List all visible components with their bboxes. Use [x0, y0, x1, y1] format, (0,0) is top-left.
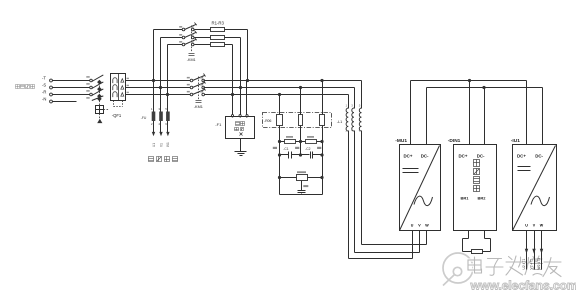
svg-text:V2 4T2: V2 4T2: [530, 259, 534, 270]
svg-text:DC-: DC-: [477, 154, 485, 159]
svg-text:www.elecfans.com: www.elecfans.com: [470, 279, 576, 293]
svg-text:-C1: -C1: [283, 147, 288, 151]
svg-text:-QF1: -QF1: [112, 113, 122, 118]
svg-text:DC+: DC+: [459, 154, 468, 159]
svg-text:-MU1: -MU1: [395, 138, 407, 144]
svg-text:U: U: [525, 224, 528, 228]
svg-text:-R: -R: [42, 90, 46, 95]
svg-text:-S: -S: [42, 83, 46, 88]
svg-text:-FU: -FU: [141, 116, 147, 120]
svg-text:W1: W1: [166, 142, 170, 147]
svg-text:-F1: -F1: [215, 122, 222, 127]
svg-text:U: U: [411, 224, 414, 228]
svg-text:R1-R3: R1-R3: [212, 21, 225, 26]
svg-text:W: W: [425, 224, 429, 228]
svg-text:-IU1: -IU1: [511, 138, 520, 144]
svg-text:-C2: -C2: [305, 147, 310, 151]
svg-text:U2 4T1: U2 4T1: [522, 259, 526, 270]
svg-text:BR2: BR2: [478, 196, 487, 201]
svg-text:V1: V1: [159, 143, 163, 147]
svg-text:U1: U1: [152, 143, 156, 147]
svg-text:-KM1: -KM1: [194, 105, 203, 109]
svg-text:DC+: DC+: [404, 154, 413, 159]
svg-text:DC+: DC+: [517, 154, 526, 159]
svg-text:-N: -N: [42, 97, 46, 102]
svg-text:-L1: -L1: [337, 120, 343, 124]
svg-text:BR1: BR1: [461, 196, 470, 201]
svg-text:-KM1: -KM1: [187, 58, 196, 62]
svg-text:DC-: DC-: [535, 154, 543, 159]
svg-text:W: W: [540, 224, 544, 228]
svg-text:-T: -T: [42, 76, 46, 81]
svg-text:DC-: DC-: [421, 154, 429, 159]
svg-text:W2 4T3: W2 4T3: [537, 258, 541, 270]
svg-text:-DIN1: -DIN1: [448, 138, 461, 144]
svg-text:-R06: -R06: [264, 119, 271, 123]
